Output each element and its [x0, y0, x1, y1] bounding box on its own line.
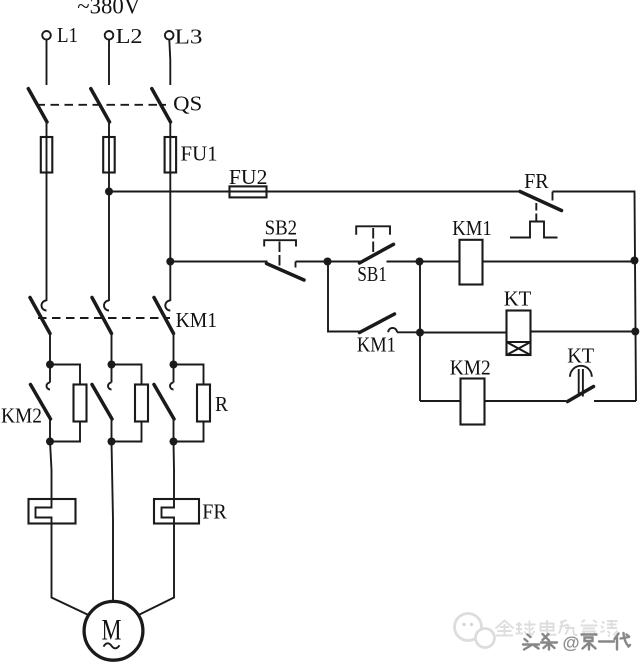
- svg-text:KT: KT: [504, 287, 532, 311]
- svg-text:KM1: KM1: [452, 216, 492, 240]
- svg-text:~380V: ~380V: [77, 0, 140, 19]
- svg-text:FR: FR: [202, 499, 227, 523]
- svg-text:KM2: KM2: [1, 404, 42, 428]
- svg-text:KM1: KM1: [176, 308, 218, 332]
- svg-text:SB1: SB1: [357, 262, 387, 286]
- svg-text:KM2: KM2: [450, 355, 491, 379]
- svg-text:R: R: [215, 392, 229, 416]
- svg-text:@: @: [563, 633, 580, 653]
- svg-text:M: M: [102, 614, 122, 647]
- svg-text:L1: L1: [57, 23, 78, 47]
- svg-text:QS: QS: [173, 91, 202, 115]
- svg-text:L2: L2: [116, 24, 143, 48]
- svg-text:FU2: FU2: [229, 165, 268, 189]
- svg-text:KT: KT: [567, 344, 594, 368]
- svg-text:FU1: FU1: [181, 142, 218, 166]
- svg-text:KM1: KM1: [357, 332, 396, 356]
- svg-text:L3: L3: [175, 24, 203, 48]
- svg-text:SB2: SB2: [265, 216, 298, 240]
- svg-text:FR: FR: [524, 169, 549, 193]
